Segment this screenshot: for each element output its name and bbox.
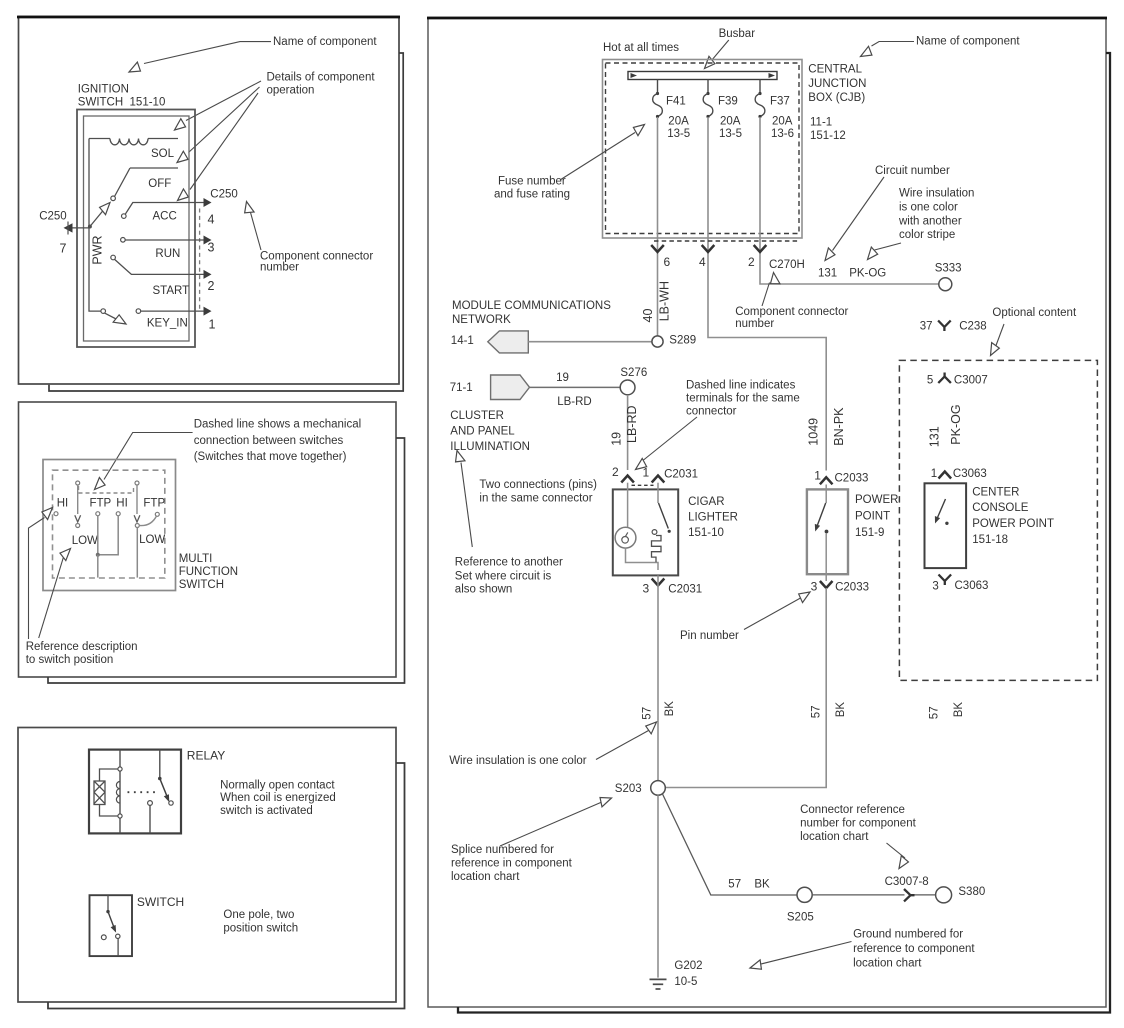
relay mechanical dotted link	[128, 791, 157, 793]
power point switch arm	[817, 503, 825, 526]
svg-text:HI: HI	[116, 498, 128, 510]
svg-text:position switch: position switch	[223, 923, 298, 935]
annotation: Wire insulation is one color	[449, 731, 648, 768]
svg-text:S380: S380	[958, 886, 985, 898]
annotation: Name of component (CJB)	[872, 36, 1021, 48]
switch S1 box	[90, 895, 133, 956]
svg-text:SWITCH: SWITCH	[179, 579, 224, 591]
svg-text:Two connections (pins): Two connections (pins)	[479, 479, 597, 491]
C238 connector chevron	[938, 321, 951, 332]
multifunction switch component box	[43, 460, 176, 591]
relay coil top terminal	[118, 767, 122, 771]
annotation: Splice numbered for reference	[451, 802, 603, 883]
svg-text:to switch position: to switch position	[26, 654, 114, 666]
svg-text:G202: G202	[674, 960, 702, 972]
cigar lighter switch contact circle	[652, 530, 657, 535]
dimmer lower contact circle	[76, 524, 80, 528]
busbar	[628, 72, 777, 80]
reference pentagon (right-pointing)	[491, 375, 530, 400]
POWER POINT label	[855, 494, 898, 539]
flash-to-pass lower contact circle	[135, 524, 139, 528]
KEY_IN left contact circle	[101, 309, 106, 314]
right panel drop shadow	[458, 53, 1110, 1013]
KEY_IN arm arrowhead	[113, 314, 128, 328]
splice S205	[797, 887, 812, 902]
svg-text:CONSOLE: CONSOLE	[972, 502, 1029, 514]
annotation: Ground numbered for reference	[761, 929, 975, 970]
svg-text:2: 2	[612, 465, 619, 479]
center console pin 3 chevron	[939, 575, 952, 586]
svg-text:ACC: ACC	[153, 210, 177, 222]
annotation: Connector reference number	[800, 804, 917, 858]
arrowhead to LOW	[59, 545, 74, 560]
arrowhead to mechanical dashed link	[91, 477, 106, 492]
svg-text:FUNCTION: FUNCTION	[179, 566, 238, 578]
annotation: Fuse number and fuse rating	[494, 133, 635, 201]
svg-text:S205: S205	[787, 911, 814, 923]
MODULE COMMUNICATIONS NETWORK label	[452, 300, 611, 326]
cigar lighter element circle	[615, 527, 636, 548]
svg-text:KEY_IN: KEY_IN	[147, 317, 188, 329]
annotation: Dashed line indicates terminals	[644, 380, 800, 461]
U-link wire between FTP and HI contacts	[98, 516, 118, 555]
annotation: Reference to another set	[455, 463, 563, 596]
power point pin 1 chevron	[820, 477, 833, 484]
pin 1 arrow	[204, 307, 212, 316]
fuse F39	[703, 80, 742, 141]
svg-text:connector: connector	[686, 406, 737, 418]
dimmer switch pivot circle (left)	[76, 481, 80, 485]
CLUSTER AND PANEL ILLUMINATION label	[450, 410, 530, 453]
svg-text:Component connector: Component connector	[735, 306, 848, 318]
arrowhead to ignition switch label	[127, 62, 142, 76]
cigar lighter switch arm	[659, 503, 669, 529]
fuse F41	[653, 80, 691, 141]
annotation: Component connector number	[251, 213, 374, 274]
svg-text:AND PANEL: AND PANEL	[450, 426, 515, 438]
ACC contact line	[125, 203, 204, 215]
svg-text:number: number	[260, 262, 299, 274]
switch feed wire	[107, 895, 109, 911]
svg-text:RELAY: RELAY	[187, 749, 225, 763]
arrowhead to S203	[598, 793, 613, 806]
KEY_IN right contact circle	[136, 309, 141, 314]
wire pentagon to S289	[528, 341, 652, 343]
svg-text:POWER: POWER	[855, 494, 898, 506]
C3007-8 inline connector chevron	[904, 889, 915, 901]
svg-text:57: 57	[929, 706, 941, 719]
CJB pin 2 chevron	[754, 245, 767, 252]
cigar lighter bimetal meander	[652, 536, 662, 563]
wire power point pin 3 down to S203 branch	[665, 588, 826, 788]
svg-text:switch is activated: switch is activated	[220, 805, 313, 817]
arrowhead to C250 connector number	[242, 200, 254, 214]
svg-text:S203: S203	[615, 783, 642, 795]
relay K1 box	[89, 750, 181, 834]
arrowhead to C3007-8 label	[895, 856, 909, 871]
svg-text:OFF: OFF	[148, 178, 171, 190]
svg-text:BK: BK	[664, 701, 676, 717]
svg-text:Normally open contact: Normally open contact	[220, 779, 335, 791]
fuse F37	[755, 80, 794, 141]
svg-text:3: 3	[811, 579, 818, 593]
OFF contact circle	[111, 196, 116, 201]
svg-text:(Switches that move together): (Switches that move together)	[194, 451, 347, 463]
svg-text:CLUSTER: CLUSTER	[450, 410, 504, 422]
svg-text:F39: F39	[718, 95, 738, 107]
arrowhead to C270H label	[769, 272, 780, 286]
svg-text:LOW: LOW	[72, 535, 98, 547]
svg-text:71-1: 71-1	[450, 382, 473, 394]
svg-text:BK: BK	[953, 702, 965, 718]
arrowhead to HI	[41, 504, 56, 519]
svg-text:57: 57	[810, 706, 822, 719]
connector dashed line	[199, 209, 201, 312]
MULTIFUNCTION SWITCH label	[179, 553, 238, 591]
svg-text:BOX (CJB): BOX (CJB)	[808, 92, 865, 104]
annotation: Wire insulation is one color with another color stripe	[875, 188, 975, 250]
cigar lighter box	[613, 489, 678, 575]
svg-text:reference in component: reference in component	[451, 857, 573, 869]
arrowhead to SOL	[174, 151, 189, 166]
svg-text:Name of component: Name of component	[916, 36, 1020, 48]
svg-text:operation: operation	[267, 85, 315, 97]
cigar lighter element bottom wire	[626, 548, 659, 570]
power point box	[807, 489, 848, 574]
switch arm	[108, 912, 114, 928]
flash-to-pass arm wire	[136, 485, 138, 514]
HI contact circle (left)	[54, 512, 58, 516]
svg-text:is one color: is one color	[899, 201, 958, 213]
optional content dashed box	[899, 360, 1097, 680]
FTP contact circle (far right)	[155, 512, 159, 516]
central junction box dashed rect	[606, 63, 800, 234]
switch arm arrowhead	[111, 925, 117, 933]
pin 2 arrow	[204, 270, 212, 279]
svg-text:151-10: 151-10	[688, 527, 724, 539]
wire to dashed box bottom (mid)	[97, 555, 99, 578]
relay armature pivot dot	[158, 777, 162, 781]
panel 3 drop shadow	[48, 763, 405, 1009]
svg-text:4: 4	[208, 213, 215, 227]
svg-text:also shown: also shown	[455, 584, 513, 596]
Busbar annotation	[712, 28, 756, 61]
right panel frame	[427, 18, 1107, 1008]
splice S203	[651, 781, 666, 796]
svg-text:Hot at all times: Hot at all times	[603, 42, 679, 54]
svg-text:JUNCTION: JUNCTION	[808, 78, 866, 90]
FTP contact circle (mid-left)	[96, 512, 100, 516]
svg-text:FTP: FTP	[143, 498, 165, 510]
power point contact dot	[825, 530, 829, 534]
annotation: Two connections (pins)	[479, 479, 597, 505]
svg-text:6: 6	[664, 255, 671, 269]
wire F41 down to S289	[657, 117, 659, 336]
CENTRAL JUNCTION BOX (CJB) label	[808, 64, 866, 142]
cigar lighter switch dot	[668, 530, 671, 533]
arrowhead to PK-OG	[864, 247, 879, 262]
svg-text:PK-OG: PK-OG	[849, 268, 886, 280]
annotation: Reference description to switch position	[26, 518, 138, 667]
svg-text:40: 40	[641, 309, 655, 323]
svg-text:C2031: C2031	[668, 584, 702, 596]
svg-text:SWITCH 151-10: SWITCH 151-10	[78, 96, 166, 108]
svg-text:7: 7	[60, 242, 67, 256]
power point output wire	[825, 534, 827, 582]
arrowhead to C2031 dashed line	[633, 458, 648, 473]
svg-text:37: 37	[920, 320, 933, 332]
svg-text:Circuit number: Circuit number	[875, 165, 950, 177]
ignition switch label	[78, 84, 166, 109]
svg-text:One pole, two: One pole, two	[223, 909, 294, 921]
svg-text:C2031: C2031	[664, 469, 698, 481]
svg-text:131: 131	[818, 268, 837, 280]
svg-text:location chart: location chart	[451, 871, 520, 883]
splice S276	[620, 380, 635, 395]
arrowhead to optional content box	[987, 343, 1001, 358]
svg-text:Reference to another: Reference to another	[455, 557, 563, 569]
power point switch arrowhead	[815, 524, 820, 532]
center console switch arrowhead	[935, 516, 940, 524]
svg-text:and fuse rating: and fuse rating	[494, 189, 570, 201]
center console pin 1 chevron	[939, 472, 952, 479]
svg-text:F37: F37	[770, 95, 790, 107]
dimmer switch arm wire	[77, 485, 79, 514]
annotation: Name of component	[144, 36, 377, 64]
wire S203 down to ground G202	[657, 795, 659, 977]
svg-text:IGNITION: IGNITION	[78, 84, 129, 96]
annotation: Dashed line shows a mechanical connection	[104, 418, 361, 479]
svg-text:C238: C238	[959, 320, 987, 332]
wire S276 down to cigar lighter pin 2	[627, 395, 629, 470]
svg-text:ILLUMINATION: ILLUMINATION	[450, 441, 530, 453]
power point feed wire	[825, 485, 827, 504]
splice S289	[652, 336, 663, 347]
svg-text:C250: C250	[210, 188, 238, 200]
svg-text:CENTER: CENTER	[972, 486, 1019, 498]
svg-text:color stripe: color stripe	[899, 229, 955, 241]
ACC contact circle	[122, 214, 127, 219]
svg-text:LB-RD: LB-RD	[557, 396, 592, 408]
annotation: Circuit number	[833, 165, 950, 251]
svg-text:1049: 1049	[807, 418, 821, 446]
svg-text:C270H: C270H	[769, 259, 805, 271]
svg-text:in the same connector: in the same connector	[479, 493, 592, 505]
svg-text:SOL: SOL	[151, 148, 175, 160]
CENTER CONSOLE POWER POINT label	[972, 486, 1054, 546]
svg-text:Connector reference: Connector reference	[800, 804, 905, 816]
annotation: Optional content	[992, 307, 1077, 346]
switch description	[223, 909, 298, 935]
svg-text:LOW: LOW	[139, 534, 165, 546]
PWR pivot dot	[88, 225, 92, 229]
svg-text:BK: BK	[835, 702, 847, 718]
junction dot	[96, 553, 100, 557]
relay armature feed wire	[159, 750, 161, 779]
svg-text:1: 1	[814, 469, 821, 483]
CJB pin 6 chevron	[651, 245, 664, 252]
relay armature arm	[160, 779, 168, 798]
PWR arm arrowhead	[98, 199, 113, 214]
RUN contact line	[125, 239, 204, 241]
arrowhead to pin 3	[797, 588, 812, 603]
relay coil top lead wire	[100, 769, 119, 781]
C250 pin 7 exit wire	[64, 222, 90, 235]
relay NO contact wire	[149, 806, 151, 834]
relay armature tip circle	[169, 801, 173, 805]
panel 1 frame (ignition switch example)	[17, 17, 400, 385]
C3007 pin 5 chevron	[938, 373, 951, 384]
svg-text:1: 1	[931, 468, 937, 480]
cigar lighter pin 1 chevron	[652, 476, 665, 483]
svg-text:location chart: location chart	[800, 831, 869, 843]
power point pin 3 chevron	[820, 581, 833, 588]
wire F39 down and right	[708, 117, 826, 471]
pin 3 arrow	[204, 236, 212, 245]
relay coil box with zigzag	[94, 781, 105, 805]
svg-text:location chart: location chart	[853, 958, 922, 970]
svg-text:11-1: 11-1	[810, 116, 832, 128]
svg-text:57: 57	[641, 707, 653, 720]
svg-text:Wire insulation is one color: Wire insulation is one color	[449, 755, 587, 767]
relay NO contact circle	[148, 801, 153, 806]
svg-text:14-1: 14-1	[451, 335, 474, 347]
svg-text:C3063: C3063	[953, 468, 987, 480]
switch pivot dot	[106, 910, 109, 913]
center console contact dot	[945, 522, 948, 525]
mechanical connection dashed link	[79, 486, 134, 493]
svg-text:13-6: 13-6	[771, 128, 794, 140]
svg-text:S333: S333	[935, 262, 962, 274]
panel 3 frame (relay and switch symbols)	[18, 728, 396, 1003]
svg-text:Dashed line shows a mechanical: Dashed line shows a mechanical	[194, 418, 361, 430]
arrowhead to component box top	[172, 119, 187, 134]
svg-text:F41: F41	[666, 95, 686, 107]
svg-text:Splice numbered for: Splice numbered for	[451, 844, 554, 856]
svg-text:13-5: 13-5	[719, 128, 742, 140]
svg-text:57: 57	[728, 878, 741, 890]
svg-text:2: 2	[208, 279, 215, 293]
svg-text:RUN: RUN	[155, 248, 180, 260]
cigar lighter pin 3 chevron	[652, 579, 665, 586]
svg-text:PWR: PWR	[90, 235, 104, 264]
svg-text:2: 2	[748, 255, 755, 269]
KEY_IN switch arm	[105, 313, 121, 321]
panel 1 drop shadow	[49, 53, 403, 391]
svg-text:START: START	[153, 285, 190, 297]
svg-text:Set where circuit is: Set where circuit is	[455, 571, 552, 583]
switch right contact circle	[116, 934, 120, 938]
svg-text:S276: S276	[620, 367, 647, 379]
HI contact circle (mid-right)	[116, 512, 120, 516]
annotation: Component connector number	[735, 283, 848, 331]
CJB pin 4 chevron	[702, 245, 715, 252]
svg-text:Wire insulation: Wire insulation	[899, 188, 974, 200]
svg-text:CIGAR: CIGAR	[688, 496, 724, 508]
svg-text:FTP: FTP	[90, 498, 112, 510]
arrowhead to circuit number 131	[821, 248, 836, 263]
svg-text:5: 5	[927, 375, 933, 387]
svg-text:CENTRAL: CENTRAL	[808, 64, 862, 76]
CIGAR LIGHTER label	[688, 496, 738, 539]
ground eyelet S380	[936, 887, 952, 903]
svg-text:HI: HI	[57, 498, 68, 510]
relay armature arrowhead	[164, 794, 170, 802]
cigar lighter switch feed wire	[657, 483, 659, 503]
flash-to-pass arm arrowhead	[134, 515, 140, 522]
svg-text:20A: 20A	[668, 116, 689, 128]
svg-text:BN-PK: BN-PK	[832, 407, 846, 446]
svg-text:POWER POINT: POWER POINT	[972, 518, 1054, 530]
cigar lighter element feed wire	[627, 483, 629, 528]
pin 4 arrow	[204, 198, 212, 207]
svg-text:NETWORK: NETWORK	[452, 314, 511, 326]
svg-text:with another: with another	[898, 216, 962, 228]
central junction box outer rect	[603, 60, 803, 239]
cigar lighter pin 2 chevron	[621, 476, 634, 483]
KEY_IN contact line	[141, 310, 204, 312]
panel 2 drop shadow	[48, 438, 405, 683]
svg-text:4: 4	[699, 255, 706, 269]
multifunction switch dashed box	[53, 470, 165, 578]
svg-text:number for component: number for component	[800, 817, 917, 829]
switch left contact circle	[101, 935, 106, 940]
svg-text:Fuse number: Fuse number	[498, 176, 566, 188]
svg-text:3: 3	[643, 582, 650, 596]
svg-text:151-9: 151-9	[855, 527, 884, 539]
relay winding arcs	[116, 782, 120, 804]
svg-text:1: 1	[643, 466, 650, 480]
svg-text:Name of component: Name of component	[273, 36, 377, 48]
svg-text:C3007: C3007	[954, 375, 988, 387]
svg-text:C2033: C2033	[835, 581, 869, 593]
annotation: Pin number	[680, 598, 801, 642]
svg-text:Pin number: Pin number	[680, 630, 739, 642]
svg-text:When coil is energized: When coil is energized	[220, 792, 336, 804]
svg-text:151-12: 151-12	[810, 130, 846, 142]
wire pentagon to S276	[530, 386, 621, 388]
relay coil bottom terminal	[118, 814, 122, 818]
center console switch arm	[937, 499, 945, 518]
panel 2 frame (multifunction switch example)	[19, 402, 397, 677]
svg-text:S289: S289	[669, 334, 696, 346]
svg-text:20A: 20A	[720, 116, 741, 128]
START contact line	[115, 259, 204, 274]
relay coil bottom lead wire	[100, 805, 119, 817]
splice S333	[939, 278, 952, 291]
switch output wire	[117, 939, 119, 957]
svg-text:3: 3	[208, 241, 215, 255]
svg-text:3: 3	[932, 581, 938, 593]
wire cigar lighter pin 3 down to S203	[657, 575, 659, 780]
ignition switch component box (outer)	[77, 110, 195, 348]
svg-text:Optional content: Optional content	[992, 307, 1077, 319]
FTP curved wiper wire	[140, 516, 157, 526]
ground symbol G202	[650, 979, 667, 989]
svg-text:MULTI: MULTI	[179, 553, 213, 565]
G202 label	[674, 960, 702, 988]
svg-text:1: 1	[209, 317, 216, 331]
svg-text:19: 19	[556, 372, 569, 384]
flash-to-pass pivot circle (right)	[135, 481, 139, 485]
svg-text:MODULE COMMUNICATIONS: MODULE COMMUNICATIONS	[452, 300, 611, 312]
svg-text:reference to component: reference to component	[853, 943, 975, 955]
svg-text:LB-RD: LB-RD	[625, 405, 639, 443]
svg-text:151-18: 151-18	[972, 534, 1008, 546]
wire F37 down to S333	[760, 117, 939, 284]
START contact circle	[111, 255, 116, 260]
svg-text:number: number	[735, 318, 774, 330]
